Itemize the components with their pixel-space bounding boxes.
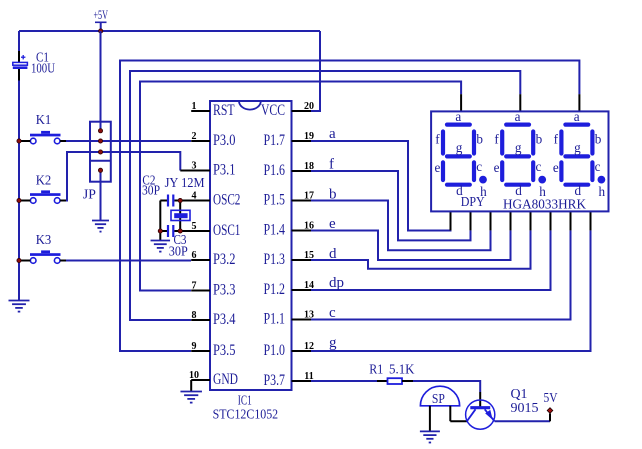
svg-text:STC12C1052: STC12C1052 — [213, 408, 279, 423]
svg-text:P1.5: P1.5 — [264, 192, 286, 209]
svg-text:g: g — [574, 140, 581, 155]
svg-text:VCC: VCC — [261, 102, 285, 119]
svg-text:dp: dp — [329, 275, 344, 291]
svg-text:f: f — [329, 157, 334, 173]
svg-text:100U: 100U — [31, 60, 55, 75]
svg-text:e: e — [553, 160, 559, 175]
svg-text:P1.6: P1.6 — [264, 162, 286, 179]
svg-text:DPY: DPY — [461, 195, 485, 210]
svg-text:d: d — [329, 246, 337, 262]
svg-text:RST: RST — [213, 102, 235, 119]
svg-text:P3.3: P3.3 — [213, 282, 236, 299]
svg-text:b: b — [595, 132, 602, 147]
svg-text:h: h — [599, 184, 606, 199]
svg-text:g: g — [329, 335, 337, 351]
svg-text:d: d — [515, 183, 522, 198]
svg-text:7: 7 — [192, 281, 197, 292]
svg-text:9: 9 — [192, 341, 197, 352]
svg-text:K1: K1 — [36, 112, 52, 127]
svg-text:P1.1: P1.1 — [264, 311, 286, 328]
svg-text:e: e — [329, 216, 336, 232]
svg-text:3: 3 — [192, 161, 197, 172]
svg-text:30P: 30P — [169, 243, 188, 258]
svg-text:c: c — [535, 159, 541, 174]
svg-text:P3.2: P3.2 — [213, 251, 236, 268]
svg-text:6: 6 — [192, 250, 197, 261]
svg-text:f: f — [554, 132, 559, 147]
svg-text:g: g — [515, 140, 522, 155]
svg-text:K3: K3 — [36, 232, 52, 247]
svg-text:f: f — [435, 132, 440, 147]
svg-text:e: e — [434, 160, 440, 175]
svg-text:GND: GND — [213, 371, 238, 388]
svg-text:8: 8 — [192, 310, 197, 321]
svg-text:HGA8033HRK: HGA8033HRK — [503, 198, 586, 213]
svg-text:4: 4 — [192, 191, 197, 202]
svg-text:Q1: Q1 — [511, 386, 528, 401]
svg-text:P3.0: P3.0 — [213, 132, 236, 149]
svg-text:10: 10 — [189, 370, 199, 381]
svg-text:c: c — [595, 159, 601, 174]
svg-text:SP: SP — [432, 391, 445, 406]
svg-text:e: e — [494, 160, 500, 175]
svg-text:P1.3: P1.3 — [264, 251, 286, 268]
svg-text:P3.1: P3.1 — [213, 162, 236, 179]
svg-text:a: a — [574, 109, 580, 124]
svg-text:+5V: +5V — [93, 8, 108, 22]
svg-text:5: 5 — [192, 221, 197, 232]
svg-text:P1.4: P1.4 — [264, 222, 286, 239]
svg-text:2: 2 — [192, 131, 197, 142]
svg-text:P3.7: P3.7 — [264, 372, 286, 389]
svg-text:P1.0: P1.0 — [264, 342, 286, 359]
svg-text:a: a — [515, 109, 521, 124]
svg-text:P3.5: P3.5 — [213, 342, 236, 359]
svg-text:P1.7: P1.7 — [264, 132, 286, 149]
svg-text:f: f — [494, 132, 499, 147]
svg-text:a: a — [329, 126, 336, 142]
svg-text:P1.2: P1.2 — [264, 281, 286, 298]
svg-text:JP: JP — [83, 186, 96, 201]
svg-text:1: 1 — [192, 101, 197, 112]
svg-text:R1: R1 — [369, 362, 383, 377]
svg-text:30P: 30P — [142, 182, 160, 197]
svg-text:JY 12M: JY 12M — [165, 175, 205, 190]
svg-text:5V: 5V — [544, 390, 558, 405]
svg-text:c: c — [329, 305, 336, 321]
svg-text:b: b — [536, 132, 543, 147]
svg-text:K2: K2 — [36, 172, 52, 187]
svg-text:g: g — [456, 140, 463, 155]
svg-text:a: a — [455, 109, 461, 124]
svg-text:20: 20 — [304, 101, 314, 112]
svg-text:b: b — [476, 132, 483, 147]
svg-text:IC1: IC1 — [238, 393, 252, 408]
svg-text:OSC2: OSC2 — [213, 192, 240, 209]
svg-text:b: b — [329, 187, 337, 203]
svg-text:P3.4: P3.4 — [213, 311, 236, 328]
svg-text:d: d — [575, 183, 582, 198]
svg-text:OSC1: OSC1 — [213, 222, 240, 239]
svg-text:9015: 9015 — [511, 400, 539, 415]
svg-text:5.1K: 5.1K — [389, 362, 415, 377]
svg-text:c: c — [476, 159, 482, 174]
